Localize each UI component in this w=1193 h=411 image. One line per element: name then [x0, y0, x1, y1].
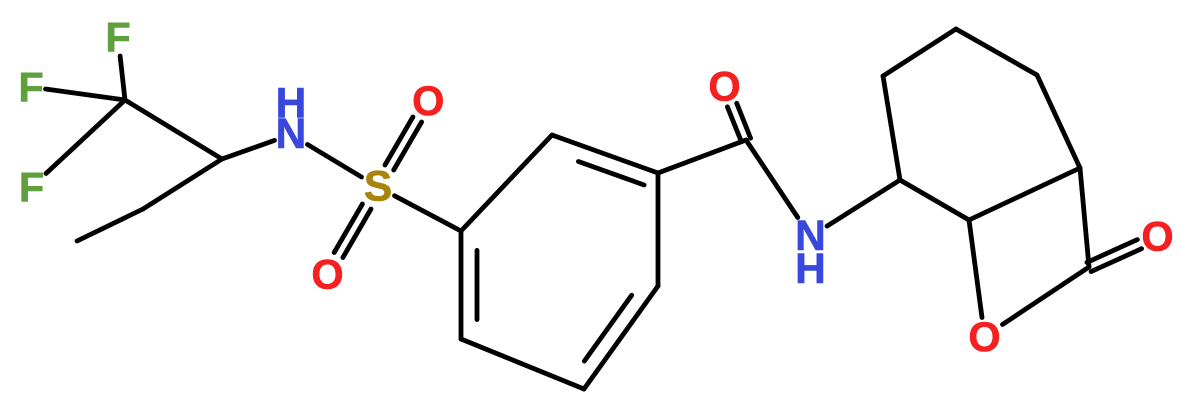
bond V3-amC — [658, 140, 746, 173]
bond V2-V3 — [552, 135, 658, 173]
svg-text:F: F — [19, 164, 44, 211]
bond mA-mB — [77, 209, 143, 241]
bond V1-V2 — [461, 135, 552, 231]
svg-text:F: F — [18, 64, 43, 111]
bond N1-S — [308, 145, 362, 178]
svg-text:O: O — [311, 251, 343, 298]
bond B-A — [883, 76, 900, 180]
bond cCH-mA — [143, 159, 222, 209]
double bond S=O1 — [385, 117, 413, 165]
bond V5-V6 — [461, 339, 584, 389]
svg-text:O: O — [708, 63, 740, 110]
double bond S=O2 — [343, 209, 371, 258]
svg-text:O: O — [1141, 213, 1173, 260]
bond cCF3-F3 — [46, 100, 125, 174]
aromatic inner line V6-V1 — [475, 250, 480, 319]
svg-text:O: O — [968, 313, 1000, 360]
svg-text:O: O — [412, 77, 444, 124]
svg-text:H: H — [276, 81, 307, 128]
bond C-O4 — [969, 220, 982, 318]
bond cCF3-F2 — [46, 89, 126, 100]
svg-text:S: S — [364, 164, 392, 211]
bond V3-V4 — [656, 173, 661, 286]
bond D-E — [1080, 168, 1089, 267]
bond E-C — [969, 168, 1080, 220]
double bond amC=O3 — [727, 107, 741, 142]
bond V4-V5 — [584, 286, 658, 389]
double bond D=O5 — [1087, 240, 1138, 263]
bond G-F — [956, 29, 1037, 75]
bond S-V1 — [395, 196, 462, 231]
svg-text:F: F — [105, 14, 130, 61]
svg-text:H: H — [795, 246, 826, 293]
bond V6-V1 — [459, 231, 464, 339]
bond amC-N2 — [746, 140, 798, 218]
bond N2-B — [827, 180, 900, 226]
aromatic inner line V4-V5 — [584, 295, 631, 361]
bond cCF3-F1 — [120, 56, 125, 100]
bond C-B — [900, 180, 969, 220]
bond F-E — [1037, 75, 1080, 168]
bond cCH-N1 — [222, 140, 275, 159]
aromatic inner line V2-V3 — [578, 162, 644, 186]
bond O4-D — [1003, 267, 1090, 325]
bond A-G — [883, 29, 956, 76]
bond cCF3-cCH — [125, 100, 222, 159]
